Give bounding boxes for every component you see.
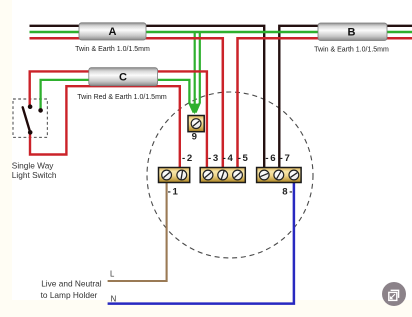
cable A sheath <box>79 23 146 40</box>
switch terminal dot (top, red feed) <box>28 104 33 109</box>
svg-text:to Lamp Holder: to Lamp Holder <box>41 290 98 300</box>
wire: red switch feed, cable C top conductor (terminal 3 to switch top) <box>30 71 207 168</box>
svg-text:- 6: - 6 <box>265 153 275 164</box>
svg-text:Twin & Earth 1.0/1.5mm: Twin & Earth 1.0/1.5mm <box>75 46 150 53</box>
svg-text:- 5: - 5 <box>238 153 249 164</box>
block1 screw 2 <box>177 170 187 180</box>
block3 screw 3 <box>289 170 299 180</box>
svg-text:9: 9 <box>192 131 197 142</box>
green arrowhead into terminal 9 <box>191 104 199 115</box>
svg-text:L: L <box>110 269 115 278</box>
wire: green earth drop from cable B to terminal 9 <box>196 32 200 113</box>
switch terminal dot (bottom) <box>28 130 33 135</box>
svg-text:- 4: - 4 <box>223 153 234 164</box>
svg-text:Twin & Earth 1.0/1.5mm: Twin & Earth 1.0/1.5mm <box>314 46 389 53</box>
svg-text:B: B <box>348 26 356 38</box>
wire: green earth drop from cable A to terminal 9 <box>194 32 196 112</box>
switch terminal dot (earth, green) <box>38 108 43 113</box>
wire: black neutral of cable B (down from terminal 7 then right) <box>279 26 412 169</box>
svg-text:- 2: - 2 <box>182 153 192 164</box>
block3 screw 1 <box>259 170 269 180</box>
svg-text:A: A <box>109 26 117 38</box>
block3 screw 2 <box>274 170 284 180</box>
ceiling rose dashed circle <box>147 92 313 258</box>
svg-text:Twin Red & Earth 1.0/1.5mm: Twin Red & Earth 1.0/1.5mm <box>77 94 167 101</box>
block2 screw 1 <box>203 170 213 180</box>
switch dashed box <box>13 99 47 137</box>
wire: black neutral from cable A (horizontal then down to terminal 6) <box>30 26 265 169</box>
corner icon circle <box>382 282 406 306</box>
cable B sheath <box>318 23 387 41</box>
svg-text:8 -: 8 - <box>282 187 292 198</box>
svg-text:- 1: - 1 <box>168 186 179 197</box>
switch lever (open) <box>23 107 31 132</box>
wire: brown live to lamp holder (from terminal 1) <box>108 182 167 281</box>
wire: blue neutral to lamp holder (from terminal 8) <box>108 182 294 304</box>
svg-text:Light Switch: Light Switch <box>12 170 57 180</box>
block1 screw 1 <box>162 170 172 180</box>
cable C sheath <box>89 68 158 86</box>
wire: red switched live return, cable C bottom conductor (switch bottom to terminal 2) <box>30 86 180 168</box>
svg-text:N: N <box>111 294 117 303</box>
terminal block 1 (lamp live) <box>159 168 190 183</box>
terminal block 3 (neutrals) <box>257 168 302 183</box>
wire: green earth horizontal (cables A and B) <box>30 31 412 33</box>
svg-text:- 3: - 3 <box>208 153 218 164</box>
svg-text:Live and Neutral: Live and Neutral <box>41 278 102 288</box>
terminal 9 screw <box>191 119 201 129</box>
corner icon squares <box>391 290 399 298</box>
block2 screw 3 <box>233 170 243 180</box>
svg-text:Single Way: Single Way <box>12 161 55 171</box>
svg-text:C: C <box>119 72 127 84</box>
wire: red live of cable B (down from terminal 5 then right) <box>238 38 412 168</box>
terminal 9 block <box>188 116 204 132</box>
wire: red live from cable A (horizontal then down to terminal 4) <box>30 38 223 168</box>
terminal block 2 (loop-in live) <box>200 168 245 183</box>
block2 screw 2 <box>218 170 228 180</box>
wire: green earth of cable C (switch to terminal 9) <box>41 80 194 113</box>
svg-text:- 7: - 7 <box>280 153 290 164</box>
